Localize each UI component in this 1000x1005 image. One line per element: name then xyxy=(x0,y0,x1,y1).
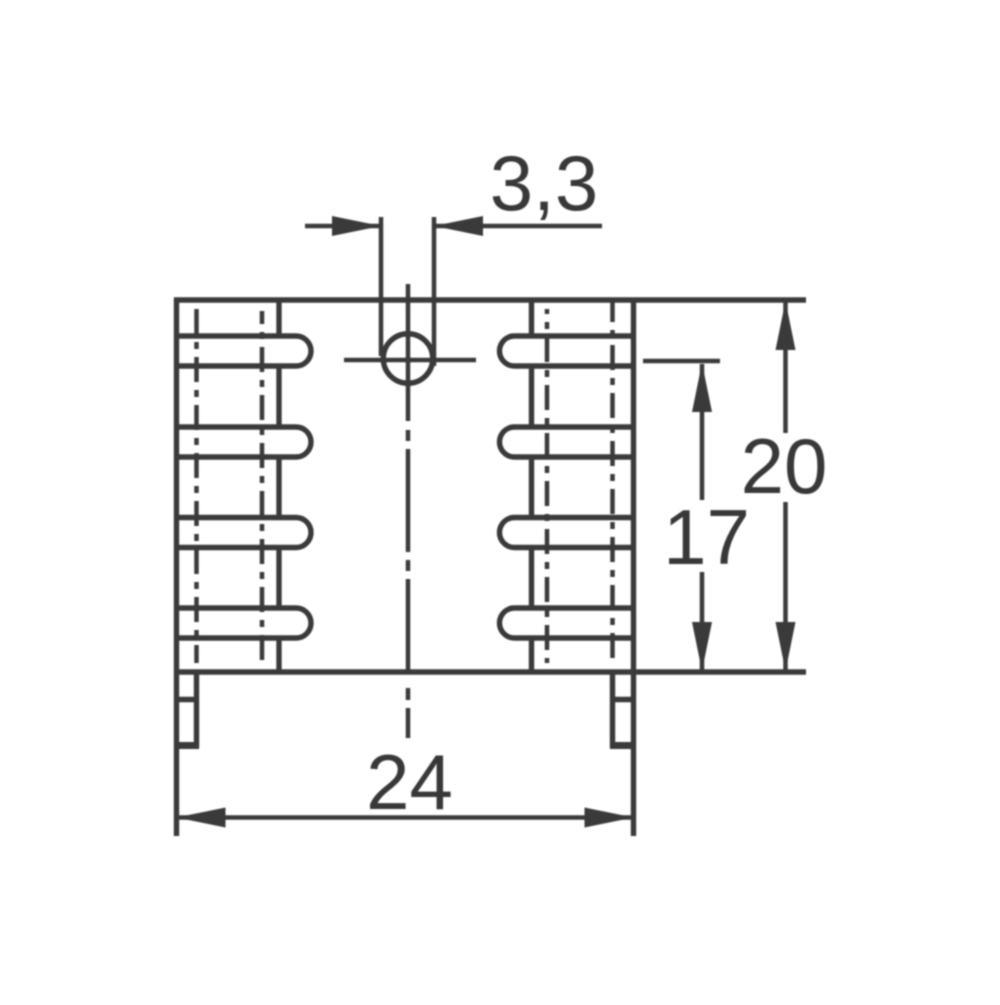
dim 17 top arrowhead xyxy=(692,363,712,412)
body bottom edge xyxy=(174,669,806,674)
left fin tab 3 xyxy=(177,518,311,548)
svg-text:20: 20 xyxy=(741,422,828,510)
dim 17 extension line xyxy=(643,359,720,364)
dim 3,3 left leader line xyxy=(305,224,379,229)
mounting hole xyxy=(383,334,433,384)
left leg bottom cap xyxy=(174,742,199,749)
left fin inner vertical line xyxy=(276,300,281,672)
dim 3,3 right leader line xyxy=(436,224,602,229)
dim 20 line upper xyxy=(783,302,788,433)
body right edge xyxy=(631,298,636,837)
dim 20 bottom arrowhead xyxy=(776,622,796,671)
right leg divider xyxy=(610,697,636,702)
svg-text:3,3: 3,3 xyxy=(490,139,598,227)
dim 3,3 left extension line xyxy=(379,217,384,356)
dim 20 top arrowhead xyxy=(776,301,796,350)
left fin tab 2 xyxy=(177,427,311,457)
left fin centerline 1 xyxy=(194,309,199,663)
dim 3,3 right arrowhead xyxy=(434,216,483,236)
dim 24 line xyxy=(178,815,632,820)
hole horizontal centerline xyxy=(344,358,476,363)
left leg inner line xyxy=(194,675,199,749)
right leg bottom cap xyxy=(610,742,636,749)
hole vertical centerline xyxy=(406,284,411,738)
right leg inner line xyxy=(610,675,615,749)
dim 17 line lower xyxy=(700,572,705,670)
svg-text:17: 17 xyxy=(663,493,750,581)
svg-text:24: 24 xyxy=(366,738,453,826)
dim 3,3 left arrowhead xyxy=(332,216,381,236)
right fin tab 3 xyxy=(500,518,634,548)
dim 24 right arrowhead xyxy=(585,808,634,828)
body left edge xyxy=(174,298,179,837)
right fin inner vertical line xyxy=(529,300,534,672)
dim 24 left arrowhead xyxy=(177,808,226,828)
right fin tab 1 xyxy=(500,336,634,366)
left fin centerline 2 xyxy=(260,311,265,663)
right fin tab 2 xyxy=(500,427,634,457)
left fin tab 1 xyxy=(177,336,311,366)
dim 3,3 right extension line xyxy=(432,217,437,366)
body top edge xyxy=(174,297,806,302)
dim 17 line upper xyxy=(700,364,705,500)
right fin centerline 2 xyxy=(610,302,615,663)
dim 20 line lower xyxy=(783,502,788,670)
right fin tab 4 xyxy=(500,608,634,638)
left fin tab 4 xyxy=(177,608,311,638)
left leg divider xyxy=(174,697,199,702)
right fin centerline 1 xyxy=(545,309,550,663)
dim 17 bottom arrowhead xyxy=(692,622,712,671)
